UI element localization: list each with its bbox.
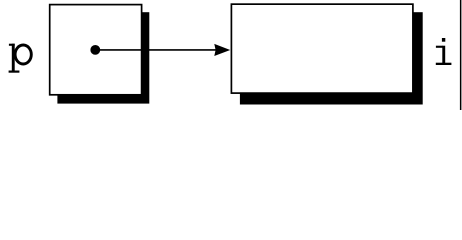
arrowhead — [214, 44, 230, 56]
shadow of box I — [240, 12, 423, 104]
shadow of box P — [57, 12, 149, 103]
box I (variable cell) — [231, 4, 413, 93]
label p — [9, 44, 32, 73]
box P (pointer cell) — [50, 5, 142, 95]
label i — [436, 38, 452, 65]
frame line — [460, 0, 462, 110]
wire — [95, 49, 216, 51]
node dot — [90, 45, 100, 55]
